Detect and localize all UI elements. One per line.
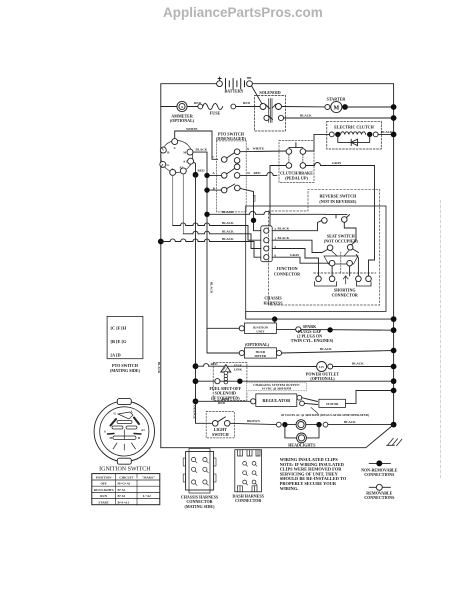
- wire: clutch-brake lower-right GRAY to reverse switch: [306, 165, 315, 167]
- svg-text:LINK: LINK: [234, 367, 243, 371]
- legend: non-removable connections: [361, 460, 398, 477]
- node: x253.5 junction dot: [251, 218, 256, 223]
- svg-text:M: M: [333, 105, 339, 111]
- svg-text:RED: RED: [254, 171, 262, 175]
- key switch terminal A2: [180, 168, 186, 174]
- node: PTO A bus junction: [204, 173, 209, 178]
- svg-text:BROWN: BROWN: [247, 419, 260, 423]
- wire: junction c2 to seat switch: [272, 240, 322, 252]
- node: bus junction spark: [391, 327, 397, 333]
- wire: A1 terminal RED down: [193, 162, 195, 175]
- wire: light switch BROWN to headlights: [230, 423, 276, 424]
- svg-text:ELECTRIC CLUTCH: ELECTRIC CLUTCH: [334, 124, 374, 129]
- svg-text:28 VOLTS AC @ 3600 RPM (REGULA: 28 VOLTS AC @ 3600 RPM (REGULATOR SHIP/O…: [281, 413, 369, 417]
- wire: S terminal WHITE to PTO switch C: [175, 131, 218, 159]
- svg-text:STATOR: STATOR: [326, 402, 339, 406]
- node: bus junction fuel: [391, 378, 397, 384]
- svg-text:STARTER: STARTER: [327, 97, 346, 102]
- wire: junction c4 GRAY to seat switch lower: [272, 257, 329, 263]
- svg-text:GRAY: GRAY: [290, 253, 300, 257]
- light switch: [206, 412, 234, 438]
- svg-text:SWITCH: SWITCH: [212, 432, 229, 437]
- solenoid K1: [255, 90, 286, 131]
- node: A1 red junction: [193, 172, 199, 178]
- svg-text:L+A2: L+A2: [143, 494, 151, 498]
- wire: B terminal to left bus: [161, 148, 164, 151]
- svg-text:BLACK: BLACK: [320, 347, 332, 351]
- wire: battery negative to right bus: [253, 83, 394, 85]
- svg-text:[A [D: [A [D: [111, 353, 121, 358]
- wire: electric clutch to right bus BLACK: [378, 133, 394, 135]
- svg-text:BLACK: BLACK: [222, 237, 234, 241]
- svg-text:CONNECTOR: CONNECTOR: [274, 271, 300, 276]
- node: PTO B bus junction: [204, 187, 209, 192]
- ground symbol chassis: [387, 438, 402, 446]
- svg-text:(MATING SIDE): (MATING SIDE): [110, 368, 141, 373]
- wire: gray vertical to shorting connector: [369, 215, 375, 276]
- node: spark row bus junction: [391, 316, 397, 322]
- svg-text:CONNECTOR: CONNECTOR: [235, 498, 261, 503]
- ignition switch table: [92, 474, 160, 506]
- node: fuel solenoid dot: [237, 379, 242, 384]
- svg-text:BLACK: BLACK: [278, 226, 290, 230]
- svg-text:RUN/LIGHTS: RUN/LIGHTS: [94, 488, 114, 492]
- wire: junction harness wire 1 BLACK: [207, 213, 250, 215]
- wire: clutch-brake lower-left RED down x270: [270, 166, 286, 226]
- wire: stator to bus: [346, 391, 394, 404]
- fuse F1: [198, 104, 236, 116]
- svg-text:BLACK: BLACK: [222, 210, 234, 214]
- key switch terminal A1: [188, 158, 194, 164]
- svg-text:BLACK: BLACK: [209, 282, 213, 294]
- svg-text:[C [F [H: [C [F [H: [111, 326, 127, 331]
- wire: PTO N to clutch-brake WHITE: [240, 150, 286, 153]
- svg-text:(PEDAL UP): (PEDAL UP): [285, 176, 308, 181]
- svg-text:RED: RED: [243, 101, 251, 105]
- svg-text:BLACK: BLACK: [196, 148, 208, 152]
- wire: ignition unit to mid bus: [207, 327, 239, 329]
- svg-text:B+A1: B+A1: [118, 494, 126, 498]
- wire: M terminal BLACK to mid bus: [193, 151, 207, 153]
- svg-text:BLACK: BLACK: [300, 113, 312, 117]
- key switch connector ring: [161, 141, 193, 173]
- svg-text:AppliancePartsPros.com: AppliancePartsPros.com: [163, 5, 323, 20]
- svg-text:CONNECTIONS: CONNECTIONS: [364, 495, 395, 500]
- wire: regulator row RED: [196, 400, 251, 402]
- wire: battery positive to left bus: [161, 84, 217, 107]
- svg-text:START: START: [99, 500, 110, 504]
- PTO switch mating side box: [107, 316, 143, 373]
- seat switch (not occupied): [322, 233, 359, 276]
- reverse switch (not in reverse): [319, 194, 357, 224]
- svg-text:(MATING SIDE): (MATING SIDE): [185, 504, 216, 509]
- svg-text:HARNESS: HARNESS: [263, 301, 283, 306]
- wire: 12V outlet row: [196, 365, 204, 367]
- svg-text:CIRCUIT: CIRCUIT: [119, 475, 134, 479]
- svg-text:GRAY: GRAY: [332, 161, 342, 165]
- svg-text:OFF: OFF: [101, 482, 107, 486]
- starter M1: [325, 97, 348, 113]
- svg-text:L: L: [131, 410, 133, 414]
- svg-text:WHITE: WHITE: [186, 127, 198, 131]
- wire: ammeter fuse row: [161, 106, 176, 108]
- node: red bus 12V tap: [193, 363, 199, 369]
- junction connector J1: [261, 226, 300, 276]
- node: ignition unit tap: [272, 316, 277, 321]
- PTO switch (disengaged) box: [216, 131, 247, 212]
- node: solenoid bus junction: [391, 115, 397, 121]
- PTO contact C row: [212, 147, 250, 163]
- wire: A2 terminal down: [182, 174, 184, 234]
- node: clutch bus junction: [391, 132, 397, 138]
- wire: red bus x195.5 vertical to light switch: [196, 175, 213, 423]
- svg-text:REGULATOR: REGULATOR: [262, 398, 291, 403]
- svg-text:M: M: [183, 150, 186, 154]
- svg-text:ORANGE: ORANGE: [193, 405, 197, 419]
- chassis harness outer box: [246, 206, 386, 312]
- svg-text:TWIN CYL. ENGINES): TWIN CYL. ENGINES): [291, 338, 334, 343]
- 12V power outlet (optional): [306, 362, 339, 381]
- svg-text:WIRING.: WIRING.: [280, 486, 299, 491]
- svg-text:M: M: [110, 436, 113, 440]
- svg-text:BLACK: BLACK: [222, 221, 234, 225]
- PTO contact A-D row: [207, 164, 250, 178]
- node: starter bus junction: [391, 104, 397, 110]
- svg-text:CONNECTIONS: CONNECTIONS: [364, 472, 395, 477]
- svg-text:BATTERY: BATTERY: [224, 89, 243, 94]
- wire: L terminal down: [172, 175, 174, 225]
- chassis harness connector (mating side): [181, 449, 219, 509]
- regulator: [251, 394, 305, 407]
- svg-text:BLACK: BLACK: [157, 362, 161, 374]
- svg-text:A1: A1: [141, 428, 145, 432]
- wire: starter to right bus: [345, 106, 394, 108]
- wire: spark plug row: [276, 328, 295, 330]
- svg-text:12V: 12V: [319, 365, 325, 369]
- key switch terminal M: [187, 149, 193, 155]
- wire: mid bus x207 vertical: [206, 152, 208, 353]
- wire: battery to solenoid: [252, 86, 263, 104]
- ignition unit: [239, 323, 276, 334]
- svg-text:CONNECTOR: CONNECTOR: [332, 293, 358, 298]
- dash harness connector: [233, 450, 265, 503]
- wire: ignition unit top feed: [274, 319, 276, 323]
- key switch terminal L: [170, 169, 176, 175]
- wire: junction c1 to reverse switch: [272, 221, 321, 231]
- wire: reverse switch to seat switch: [344, 222, 356, 245]
- node: red bus fuel tap: [193, 378, 199, 384]
- node: left bus junction for gray wire: [158, 239, 164, 245]
- node: red bus regulator tap: [193, 398, 199, 404]
- svg-text:B+A1: B+A1: [118, 488, 126, 492]
- wire: headlights BLACK to bus: [328, 424, 394, 426]
- svg-text:FUSE: FUSE: [210, 111, 221, 116]
- svg-text:UNIT: UNIT: [256, 329, 265, 333]
- wire: junction harness wire 4 GRAY: [161, 241, 170, 243]
- wire: 12V outlet BLACK to bus: [333, 366, 394, 368]
- svg-text:SOLENOID: SOLENOID: [259, 90, 280, 95]
- legend: removable connections: [364, 484, 395, 500]
- node: bus bottom junction: [391, 422, 397, 428]
- wire: solenoid to starter: [282, 106, 325, 108]
- wire: PTO D RED to x270: [240, 174, 267, 176]
- svg-text:14 VDC @ 3600 RPM: 14 VDC @ 3600 RPM: [262, 387, 292, 391]
- node: bus junction 12V: [391, 364, 397, 370]
- svg-text:B+S+A1: B+S+A1: [118, 500, 130, 504]
- electric clutch L1: [327, 121, 382, 149]
- headlights: [276, 420, 328, 448]
- svg-text:M+G+A1: M+G+A1: [118, 482, 131, 486]
- wire: right main bus (vertical): [393, 84, 395, 425]
- svg-text:WHITE: WHITE: [253, 146, 265, 150]
- svg-text:(DISENGAGED): (DISENGAGED): [216, 136, 247, 141]
- svg-text:(OPTIONAL): (OPTIONAL): [245, 342, 270, 347]
- PTO contact B row: [207, 184, 240, 193]
- spark plug symbol: [327, 327, 332, 332]
- wire: fuel solenoid row: [196, 380, 215, 382]
- label: charging system output: [247, 383, 307, 391]
- node: wire1 bus junction: [204, 212, 209, 217]
- svg-text:(OPTIONAL): (OPTIONAL): [170, 118, 195, 123]
- svg-text:RED: RED: [222, 397, 230, 401]
- svg-text:POSITION: POSITION: [96, 475, 112, 479]
- key switch terminal S: [172, 139, 178, 145]
- node: bus junction hour meter: [391, 348, 397, 354]
- chassis harness inner dashed boundary: [268, 189, 379, 305]
- ignition switch face: [94, 399, 154, 465]
- wire: left main bus (vertical): [160, 107, 162, 448]
- battery BT1: [217, 77, 253, 94]
- wire: hour meter left to mid bus: [207, 352, 239, 354]
- svg-text:"MAKE": "MAKE": [142, 475, 156, 479]
- svg-text:(NOT OCCUPIED): (NOT OCCUPIED): [324, 238, 359, 243]
- page edge artifact line: [440, 200, 442, 480]
- svg-text:BLACK: BLACK: [344, 420, 356, 424]
- svg-text:(NOT IN REVERSE): (NOT IN REVERSE): [319, 199, 357, 204]
- clutch-brake switch (pedal up): [279, 140, 314, 182]
- svg-text:METER: METER: [255, 354, 267, 358]
- fuse link and fuel shut-off solenoid: [209, 362, 246, 404]
- svg-text:IGNITION SWITCH: IGNITION SWITCH: [99, 466, 151, 472]
- key switch terminal G: [160, 161, 166, 167]
- svg-text:RED: RED: [198, 168, 206, 172]
- svg-text:L: L: [172, 167, 174, 171]
- shorting connector: [314, 273, 376, 298]
- hour meter (optional): [239, 342, 281, 358]
- note: wiring insulated clips: [280, 457, 347, 491]
- svg-text:RED: RED: [253, 195, 257, 202]
- wire: electric clutch feed from clutch-brake switch: [306, 134, 330, 151]
- svg-text:[B [E [G: [B [E [G: [111, 339, 127, 344]
- wire: junction harness wire 2 BLACK: [173, 225, 181, 227]
- diode CR1: [338, 134, 370, 142]
- svg-text:S: S: [174, 146, 176, 150]
- wire: bottom ground wire: [161, 425, 394, 448]
- ammeter (optional): [170, 101, 195, 123]
- wire: junction harness wire 3 BLACK: [183, 233, 193, 235]
- svg-text:BLACK: BLACK: [222, 229, 234, 233]
- wire: hour meter right BLACK to bus: [282, 351, 394, 354]
- stator: [302, 398, 346, 408]
- label: spark plugs gap: [291, 324, 334, 343]
- svg-text:S: S: [104, 430, 106, 434]
- svg-text:RUN: RUN: [100, 494, 108, 498]
- wire: junction c3 to seat switch leg: [272, 249, 318, 277]
- wire: solenoid ground row BLACK: [284, 117, 394, 119]
- wire: G terminal to left bus: [161, 164, 163, 167]
- node: bus junction stator: [391, 388, 397, 394]
- wire: chassis box to spark row: [246, 312, 394, 320]
- wire: PTO B contact down x253.5: [240, 188, 261, 230]
- svg-text:BLACK: BLACK: [278, 236, 290, 240]
- wire: fuel row BLACK to bus: [243, 380, 394, 382]
- svg-text:BLACK: BLACK: [352, 362, 364, 366]
- svg-text:A2: A2: [179, 165, 183, 169]
- svg-text:A1: A1: [183, 159, 187, 163]
- svg-text:HEADLIGHTS: HEADLIGHTS: [288, 443, 316, 448]
- svg-text:(OPTIONAL): (OPTIONAL): [310, 376, 335, 381]
- key switch terminal B: [160, 147, 166, 153]
